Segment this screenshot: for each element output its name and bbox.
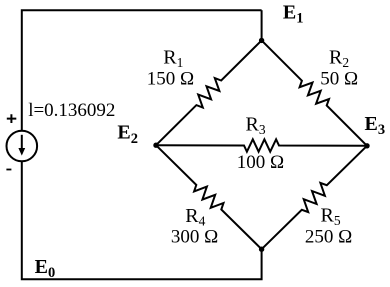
svg-text:50 Ω: 50 Ω — [320, 69, 358, 90]
svg-text:150 Ω: 150 Ω — [147, 69, 194, 90]
svg-text:100 Ω: 100 Ω — [237, 152, 284, 173]
svg-text:l=0.136092: l=0.136092 — [28, 100, 115, 121]
svg-text:300 Ω: 300 Ω — [171, 227, 218, 248]
svg-text:250 Ω: 250 Ω — [305, 227, 352, 248]
